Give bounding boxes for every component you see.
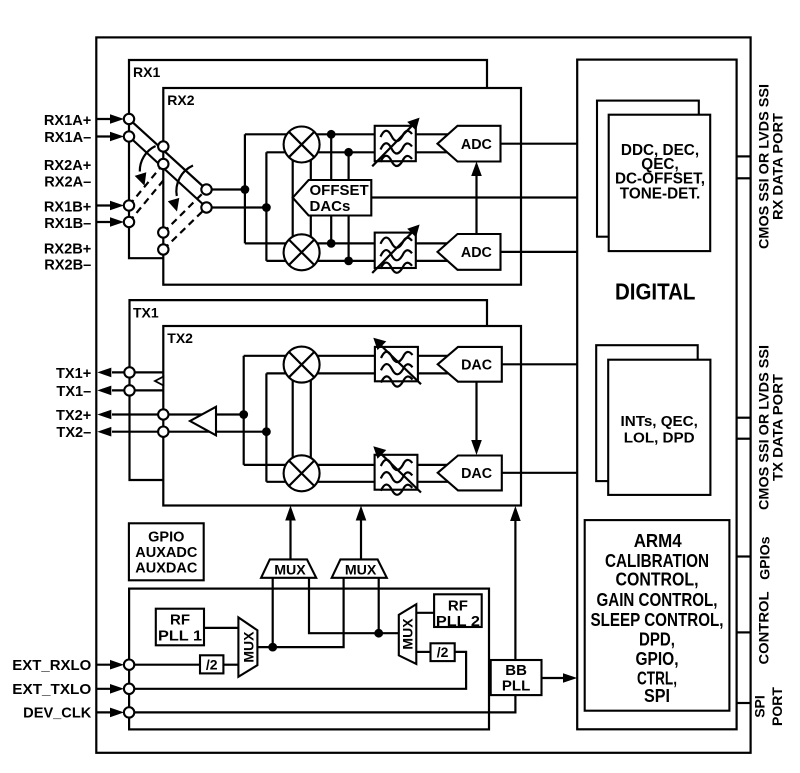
amplifier TX2 bbox=[190, 407, 216, 436]
wire BB PLL up arrow bbox=[514, 512, 516, 660]
wire muxL output bus bbox=[257, 577, 343, 647]
GPIO AUXADC AUXDAC box bbox=[129, 523, 204, 580]
svg-text:MUX: MUX bbox=[400, 618, 416, 650]
svg-text:RX1: RX1 bbox=[133, 64, 160, 80]
wire TX mixer Q to filter row ch2 bbox=[302, 481, 375, 483]
node junction dot offset tap Q1 bbox=[327, 239, 336, 248]
node junction dot muxL bus bbox=[268, 643, 277, 652]
INTs stack front box bbox=[608, 360, 710, 495]
synthesizer box bbox=[129, 589, 489, 730]
TX1 box outline bbox=[130, 300, 488, 480]
mixer RX I cross bbox=[289, 132, 314, 157]
svg-text:RX2B+: RX2B+ bbox=[44, 241, 91, 257]
svg-text:TX1–: TX1– bbox=[56, 384, 91, 400]
svg-text:TX2: TX2 bbox=[167, 330, 193, 346]
wire bus2 vertical bbox=[265, 152, 267, 261]
RX2 box bbox=[163, 88, 521, 285]
pivot circle RX2 A+ bbox=[158, 141, 168, 151]
wire TX bus1 vertical bbox=[243, 356, 245, 465]
port tick CONTROL bbox=[737, 631, 750, 633]
wire TX mixer I row left ch2 bbox=[266, 372, 302, 374]
svg-text:GPIO,: GPIO, bbox=[636, 649, 679, 669]
svg-text:GPIOs: GPIOs bbox=[757, 536, 773, 580]
node junction dot bus1 bbox=[241, 185, 250, 194]
ARM4 box bbox=[585, 520, 730, 711]
svg-text:GAIN CONTROL,: GAIN CONTROL, bbox=[597, 590, 718, 610]
mux MUX2 (to RX LO) bbox=[332, 559, 387, 577]
wire ADC2 output to digital bbox=[501, 251, 578, 253]
wire TX mixer I row left ch1 bbox=[244, 355, 302, 357]
svg-text:CALIBRATION: CALIBRATION bbox=[605, 551, 709, 571]
filter RX1 (tunable BB filter) bbox=[372, 118, 419, 167]
svg-text:GPIO: GPIO bbox=[148, 529, 184, 545]
wire bus1 vertical bbox=[244, 134, 246, 243]
switch output circle 2 bbox=[201, 202, 211, 212]
wire DAC1 input from digital bbox=[502, 363, 577, 365]
svg-text:OFFSET: OFFSET bbox=[310, 182, 369, 199]
wire BB PLL to digital arrow bbox=[542, 677, 573, 679]
wire row Q ch1 to mixer bbox=[245, 242, 302, 244]
svg-text:RX2A+: RX2A+ bbox=[44, 158, 91, 174]
wire EXT_TXLO input bbox=[96, 688, 113, 690]
svg-text:ADC: ADC bbox=[461, 245, 492, 261]
wire ADC1 output to digital bbox=[501, 143, 578, 145]
arrowhead DAC1 to DAC2 bbox=[471, 440, 482, 455]
svg-text:PLL: PLL bbox=[502, 678, 530, 695]
arrowhead TX2- out bbox=[97, 427, 111, 437]
arrowhead RX1B+ input bbox=[110, 201, 124, 211]
arrowhead RX1A- input bbox=[110, 132, 124, 142]
wire mixer RX I to filter row ch1 bbox=[302, 133, 375, 135]
DDC stack back box bbox=[597, 101, 699, 237]
arrowhead switch arc RX1 bbox=[135, 172, 147, 186]
arrowhead ADC2 to ADC1 bbox=[471, 162, 482, 177]
svg-text:ARM4: ARM4 bbox=[634, 531, 682, 551]
svg-text:AUXDAC: AUXDAC bbox=[135, 560, 198, 576]
wire offset DAC tap I1 bbox=[330, 134, 332, 180]
svg-text:MUX: MUX bbox=[345, 562, 377, 578]
svg-text:PLL 2: PLL 2 bbox=[436, 613, 480, 630]
svg-text:EXT_TXLO: EXT_TXLO bbox=[12, 682, 91, 698]
svg-text:INTs, QEC,: INTs, QEC, bbox=[621, 413, 698, 430]
divider /2 right box bbox=[431, 643, 455, 661]
svg-text:ADC: ADC bbox=[461, 137, 492, 153]
svg-text:DAC: DAC bbox=[461, 357, 492, 373]
svg-text:TX1: TX1 bbox=[133, 304, 159, 320]
wire DEV_CLK to BB PLL bbox=[134, 695, 515, 712]
wire output2 to bus bbox=[207, 206, 267, 208]
mux right (TX LO select) bbox=[399, 604, 417, 664]
wire RX1A+ input bbox=[96, 118, 113, 120]
wire RF PLL1 to muxL bbox=[204, 627, 238, 629]
arrowhead TX2+ out bbox=[97, 410, 111, 420]
wire filter1 to ADC1 row ch2 bbox=[416, 151, 453, 153]
wire switch dashed arm B+ bbox=[129, 164, 163, 206]
svg-text:RX1B–: RX1B– bbox=[44, 216, 91, 232]
wire switch solid arm A+ bbox=[129, 119, 207, 190]
wire mixer RX Q to filter row ch2 bbox=[302, 260, 375, 262]
pivot circle RX2 A- bbox=[158, 159, 168, 169]
wire EXT_RXLO input bbox=[96, 664, 113, 666]
wire switch dashed arm RX2B- bbox=[163, 208, 206, 250]
DAC 2 bbox=[438, 456, 502, 491]
wire TX mixer Q row left ch1 bbox=[244, 464, 302, 466]
ADC 1 bbox=[438, 126, 501, 162]
port tick RX data 2 bbox=[737, 177, 750, 179]
filter RX2 (tunable BB filter) bbox=[372, 225, 419, 274]
svg-text:TONE-DET.: TONE-DET. bbox=[620, 186, 700, 203]
wire switch solid arm A- bbox=[129, 137, 207, 208]
mixer RX Q bbox=[284, 234, 320, 270]
divider /2 left box bbox=[200, 655, 223, 673]
DDC stack front box bbox=[609, 115, 711, 251]
OFFSET DACs block bbox=[293, 180, 372, 216]
mixer TX Q bbox=[284, 455, 320, 491]
filter TX2 (tunable BB filter) bbox=[373, 446, 421, 495]
pivot circle RX2 B- bbox=[158, 244, 168, 254]
svg-text:LOL, DPD: LOL, DPD bbox=[624, 429, 695, 446]
wire mixer RX Q to filter row ch1 bbox=[302, 242, 375, 244]
svg-text:MUX: MUX bbox=[274, 562, 306, 578]
wire MUX1 LO up arrow bbox=[289, 511, 291, 560]
svg-text:AUXADC: AUXADC bbox=[135, 545, 198, 561]
wire TX filter2 to DAC2 row ch2 bbox=[417, 481, 453, 483]
wire RX LO vertical I bbox=[292, 158, 294, 239]
wire TX1- output bbox=[112, 389, 163, 391]
wire filter2 to ADC2 row ch2 bbox=[416, 260, 453, 262]
svg-text:DACs: DACs bbox=[310, 198, 351, 215]
wire DAC2 input from digital bbox=[502, 472, 577, 474]
wire DAC1 to DAC2 clock arrow bbox=[475, 382, 477, 450]
wire offset DAC tap Q1 bbox=[330, 216, 332, 244]
arrowhead DEV_CLK bbox=[110, 708, 124, 718]
node junction dot offset tap Q2 bbox=[344, 257, 353, 266]
arrowhead switch arc RX2 bbox=[168, 198, 180, 212]
wire offset DACs output to digital bbox=[371, 196, 577, 198]
port tick TX data 2 bbox=[737, 438, 750, 440]
mixer TX I bbox=[284, 347, 320, 383]
arrowhead BB PLL up bbox=[510, 506, 521, 521]
wire /2L to muxL bbox=[223, 664, 238, 666]
wire muxR to /2R bbox=[416, 651, 430, 653]
pin circle RX1A- bbox=[124, 131, 134, 141]
port tick TX data 1 bbox=[737, 417, 750, 419]
filter TX1 (tunable BB filter) bbox=[373, 338, 421, 387]
arrowhead RX1B- input bbox=[110, 217, 124, 227]
wire filter1 to ADC1 row ch1 bbox=[416, 133, 453, 135]
mixer TX Q cross bbox=[289, 461, 314, 486]
BB PLL box bbox=[491, 660, 542, 695]
wire TX LO vertical Q bbox=[310, 378, 312, 460]
ADC 2 bbox=[438, 234, 501, 270]
wire row Q ch2 to mixer bbox=[266, 260, 302, 262]
svg-text:BB: BB bbox=[505, 662, 527, 679]
wire mixer RX I to filter row ch2 bbox=[302, 151, 375, 153]
wire TX2- output bbox=[112, 431, 266, 433]
pin circle TX2+ bbox=[158, 409, 168, 419]
arrowhead MUX2 LO bbox=[356, 506, 367, 521]
arrowhead TX1- out bbox=[97, 386, 111, 396]
RX1 box outline bbox=[129, 60, 487, 258]
wire TX filter2 to DAC2 row ch1 bbox=[417, 464, 453, 466]
svg-text:SLEEP CONTROL,: SLEEP CONTROL, bbox=[591, 610, 724, 630]
mux left (RX LO select) bbox=[238, 617, 257, 676]
svg-text:CONTROL: CONTROL bbox=[756, 591, 772, 664]
svg-text:DAC: DAC bbox=[461, 466, 492, 482]
arrowhead TX1+ out bbox=[97, 368, 111, 378]
node junction dot bus2 bbox=[262, 203, 271, 212]
wire RX1B+ input bbox=[96, 204, 113, 206]
mux MUX1 (to TX LO) bbox=[261, 559, 316, 577]
svg-text:SPI: SPI bbox=[644, 686, 670, 706]
pin circle TX1- bbox=[124, 385, 134, 395]
arrowhead EXT_TXLO bbox=[110, 684, 124, 694]
amplifier TX1 (small) bbox=[155, 377, 163, 386]
svg-text:RX2B–: RX2B– bbox=[44, 258, 91, 274]
wire muxL to MUX1 riser bbox=[272, 577, 274, 647]
svg-text:TX2+: TX2+ bbox=[56, 408, 91, 424]
svg-text:RX1A+: RX1A+ bbox=[44, 113, 91, 129]
svg-text:TX1+: TX1+ bbox=[56, 366, 91, 382]
switch swing arc RX1 bbox=[140, 146, 156, 172]
wire TX mixer I to filter row ch2 bbox=[302, 372, 375, 374]
wire ADC2 to ADC1 clock arrow bbox=[475, 166, 477, 234]
wire offset DAC tap I2 bbox=[348, 152, 350, 180]
svg-text:RF: RF bbox=[170, 612, 190, 629]
svg-text:EXT_RXLO: EXT_RXLO bbox=[12, 658, 91, 674]
svg-text:DPD,: DPD, bbox=[639, 630, 675, 650]
mixer RX Q cross bbox=[289, 240, 314, 265]
wire TX mixer I to filter row ch1 bbox=[302, 355, 375, 357]
pin circle TX2- bbox=[158, 427, 168, 437]
arrowhead RX1A+ input bbox=[110, 114, 124, 124]
outer chip border bbox=[96, 37, 750, 752]
pin circle RX1B+ bbox=[124, 200, 134, 210]
wire switch dashed arm B- bbox=[129, 181, 163, 223]
port tick GPIOs bbox=[737, 555, 750, 557]
svg-text:TX2–: TX2– bbox=[56, 425, 91, 441]
wire RX1B- input bbox=[96, 221, 113, 223]
mixer TX I cross bbox=[289, 352, 314, 377]
svg-text:MUX: MUX bbox=[241, 631, 257, 663]
arrowhead EXT_RXLO bbox=[110, 660, 124, 670]
port tick SPI bbox=[737, 702, 750, 704]
pin circle EXT_TXLO bbox=[124, 684, 134, 694]
wire offset DAC tap Q2 bbox=[348, 216, 350, 261]
wire MUX2 LO up arrow bbox=[360, 511, 362, 560]
wire RX LO vertical Q bbox=[310, 158, 312, 239]
RF PLL 2 box bbox=[434, 594, 482, 627]
RF PLL 1 box bbox=[156, 609, 204, 646]
pin circle DEV_CLK bbox=[124, 707, 134, 717]
svg-text:/2: /2 bbox=[206, 656, 218, 672]
wire TX mixer Q row left ch2 bbox=[266, 481, 302, 483]
arrowhead MUX1 LO bbox=[285, 506, 296, 521]
DAC 1 bbox=[438, 347, 502, 382]
pin circle RX1B- bbox=[124, 217, 134, 227]
arrowhead BB PLL to digital bbox=[563, 673, 577, 683]
wire RX1A- input bbox=[96, 135, 113, 137]
wire RF PLL2 to muxR bbox=[416, 612, 434, 614]
wire muxR to MUX2 riser bbox=[378, 577, 380, 633]
node junction dot offset tap I2 bbox=[344, 148, 353, 157]
pin circle RX1A+ bbox=[124, 114, 134, 124]
svg-text:RX2: RX2 bbox=[167, 92, 194, 108]
node junction dot muxR bus bbox=[374, 629, 383, 638]
wire /2R to EXT_TXLO bbox=[134, 652, 466, 689]
wire TX1+ output bbox=[112, 371, 163, 373]
svg-text:RX1B+: RX1B+ bbox=[44, 199, 91, 215]
port tick RX data 1 bbox=[737, 155, 750, 157]
TX2 box bbox=[163, 326, 521, 506]
svg-text:DIGITAL: DIGITAL bbox=[615, 278, 696, 304]
switch swing arc RX2 bbox=[176, 166, 193, 197]
svg-text:RX1A–: RX1A– bbox=[44, 130, 91, 146]
wire output1 to bus bbox=[207, 188, 245, 190]
pin circle TX1+ bbox=[124, 367, 134, 377]
svg-text:RF: RF bbox=[448, 598, 468, 615]
node junction dot TX bus2 bbox=[262, 427, 271, 436]
wire DEV_CLK input bbox=[96, 711, 113, 713]
wire TX filter1 to DAC1 row ch2 bbox=[418, 372, 453, 374]
wire row I ch1 to mixer bbox=[245, 133, 302, 135]
wire switch dashed arm RX2B+ bbox=[163, 190, 206, 233]
wire TX2+ output bbox=[112, 413, 244, 415]
wire TX LO vertical I bbox=[292, 378, 294, 460]
wire TX bus2 vertical bbox=[265, 373, 267, 481]
wire filter2 to ADC2 row ch1 bbox=[416, 242, 453, 244]
switch output circle 1 bbox=[201, 184, 211, 194]
DIGITAL box bbox=[577, 60, 736, 730]
wire EXT_RXLO to /2 bbox=[134, 664, 200, 666]
mixer RX I bbox=[284, 127, 320, 163]
svg-text:/2: /2 bbox=[437, 644, 449, 660]
wire TX filter1 to DAC1 row ch1 bbox=[418, 355, 453, 357]
INTs stack back box bbox=[596, 345, 698, 481]
pin circle EXT_RXLO bbox=[124, 660, 134, 670]
node junction dot TX bus1 bbox=[239, 410, 248, 419]
wire TX mixer Q to filter row ch1 bbox=[302, 464, 375, 466]
svg-text:DEV_CLK: DEV_CLK bbox=[23, 706, 92, 722]
wire row I ch2 to mixer bbox=[266, 151, 302, 153]
svg-text:RX2A–: RX2A– bbox=[44, 175, 91, 191]
svg-text:CONTROL,: CONTROL, bbox=[616, 570, 699, 590]
wire muxR output bus bbox=[309, 577, 399, 633]
svg-text:PLL 1: PLL 1 bbox=[158, 628, 202, 645]
node junction dot offset tap I1 bbox=[327, 130, 336, 139]
pivot circle RX2 B+ bbox=[158, 227, 168, 237]
